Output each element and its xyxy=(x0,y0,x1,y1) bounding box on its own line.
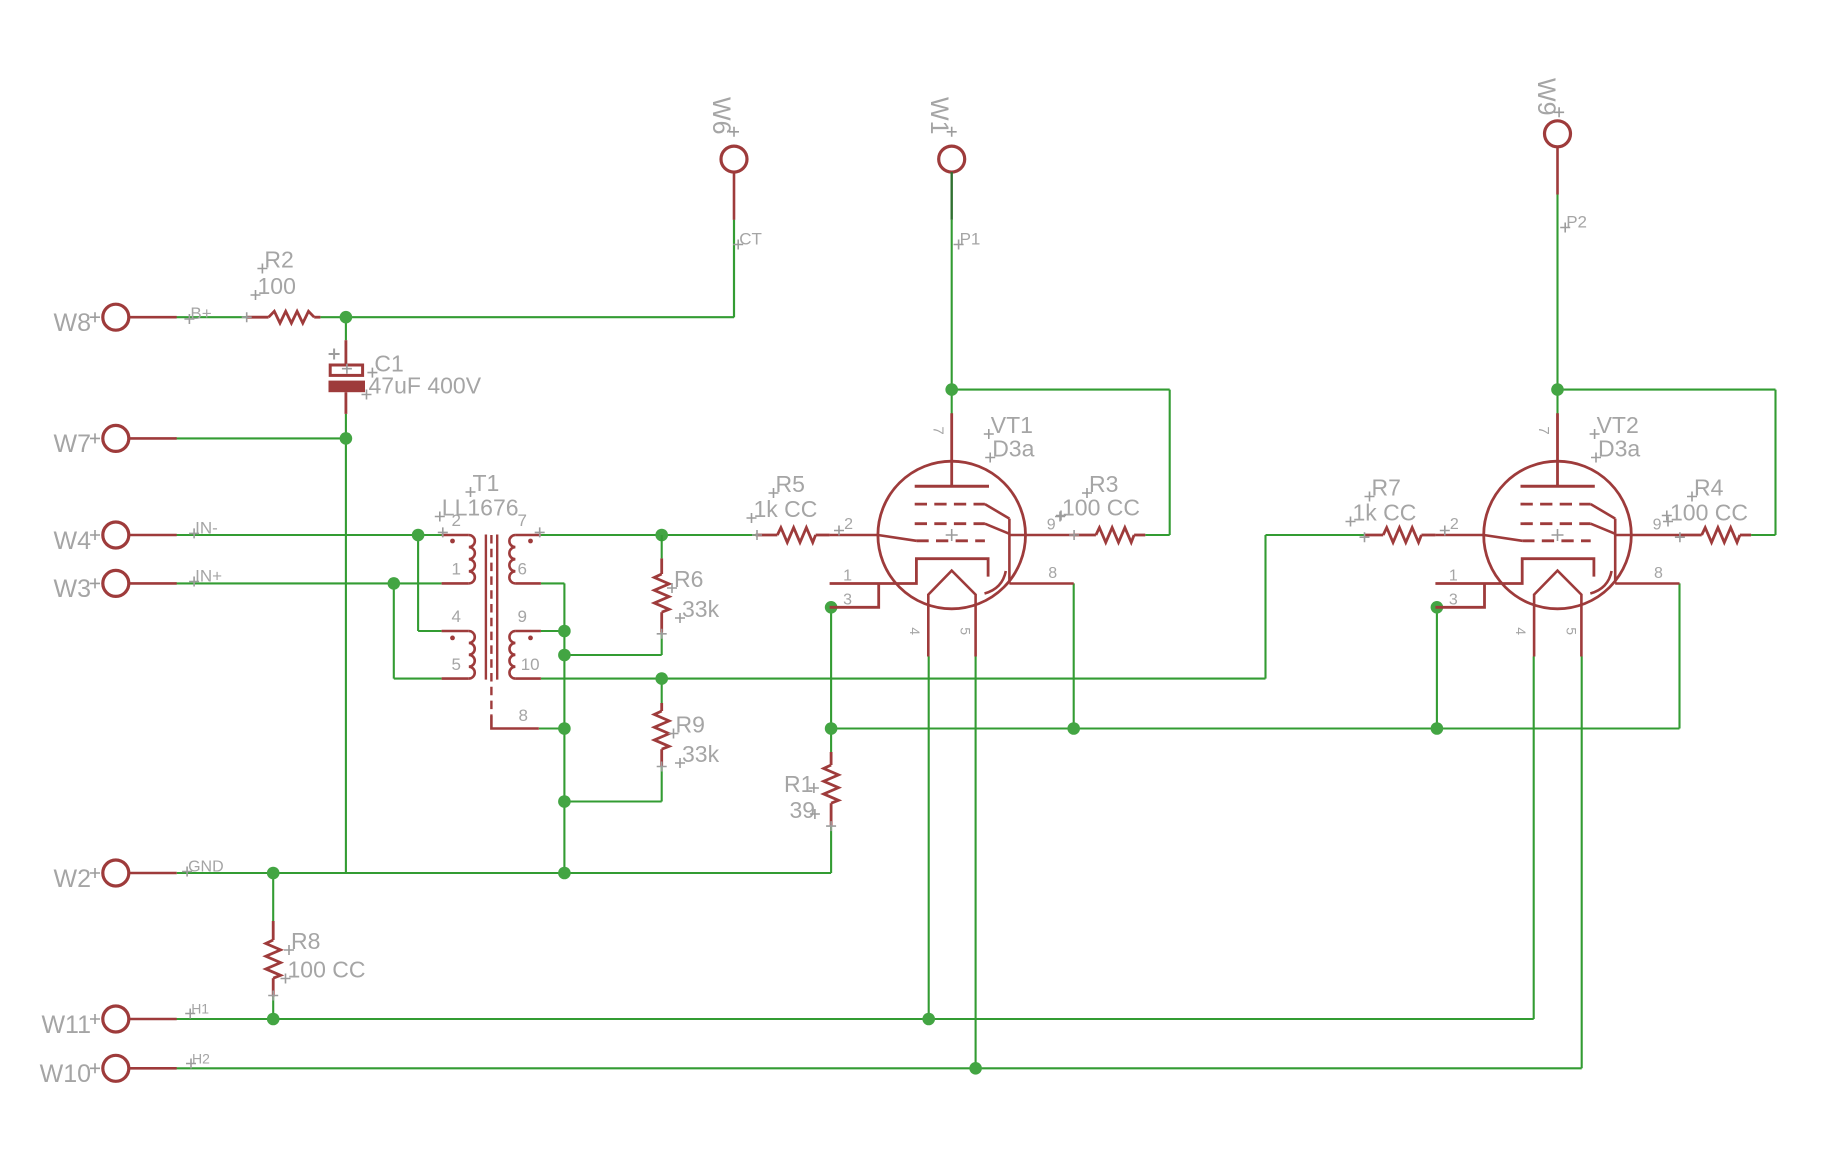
svg-text:33k: 33k xyxy=(682,596,720,622)
svg-text:W7: W7 xyxy=(54,430,92,458)
svg-text:5: 5 xyxy=(1564,627,1580,635)
svg-text:R2: R2 xyxy=(264,247,293,273)
svg-text:4: 4 xyxy=(1513,627,1529,635)
svg-text:2: 2 xyxy=(1450,516,1459,533)
svg-text:9: 9 xyxy=(518,607,527,626)
svg-text:9: 9 xyxy=(1653,517,1662,534)
svg-text:8: 8 xyxy=(1048,565,1057,582)
svg-text:1k CC: 1k CC xyxy=(1353,500,1417,526)
svg-text:3: 3 xyxy=(843,592,852,609)
svg-text:39: 39 xyxy=(790,797,816,823)
svg-text:7: 7 xyxy=(929,426,946,434)
svg-text:R6: R6 xyxy=(674,566,703,592)
svg-text:8: 8 xyxy=(1654,565,1663,582)
svg-text:R5: R5 xyxy=(776,471,805,497)
svg-text:CT: CT xyxy=(739,230,762,249)
svg-text:R7: R7 xyxy=(1372,475,1401,501)
svg-text:VT1: VT1 xyxy=(991,412,1033,438)
svg-text:B+: B+ xyxy=(190,304,211,323)
svg-text:GND: GND xyxy=(188,859,224,876)
svg-text:R3: R3 xyxy=(1089,471,1118,497)
svg-text:1: 1 xyxy=(452,559,461,578)
svg-text:1k CC: 1k CC xyxy=(754,496,818,522)
svg-text:D3a: D3a xyxy=(1598,436,1640,462)
svg-text:1: 1 xyxy=(1449,568,1458,585)
svg-text:3: 3 xyxy=(1449,592,1458,609)
svg-text:7: 7 xyxy=(1535,426,1552,434)
svg-text:9: 9 xyxy=(1047,517,1056,534)
svg-text:100 CC: 100 CC xyxy=(1062,495,1140,521)
svg-text:W10: W10 xyxy=(40,1060,91,1088)
svg-text:D3a: D3a xyxy=(992,436,1034,462)
svg-text:6: 6 xyxy=(518,559,527,578)
svg-text:W8: W8 xyxy=(54,309,92,337)
svg-text:7: 7 xyxy=(518,511,527,530)
svg-text:P1: P1 xyxy=(960,230,981,249)
svg-text:W2: W2 xyxy=(54,865,92,893)
svg-text:5: 5 xyxy=(958,627,974,635)
svg-text:2: 2 xyxy=(844,516,853,533)
svg-text:100: 100 xyxy=(258,273,296,299)
svg-text:8: 8 xyxy=(519,706,528,725)
svg-text:100 CC: 100 CC xyxy=(288,957,366,983)
svg-text:5: 5 xyxy=(452,655,461,674)
svg-text:R4: R4 xyxy=(1694,475,1724,501)
svg-text:P2: P2 xyxy=(1566,213,1587,232)
svg-text:W11: W11 xyxy=(41,1011,91,1039)
svg-text:R8: R8 xyxy=(291,928,320,954)
svg-text:2: 2 xyxy=(452,511,461,530)
svg-text:33k: 33k xyxy=(682,741,720,767)
svg-text:W9: W9 xyxy=(1532,78,1560,116)
svg-text:W4: W4 xyxy=(54,527,92,555)
svg-text:W6: W6 xyxy=(707,97,735,135)
svg-text:4: 4 xyxy=(907,627,923,635)
svg-text:1: 1 xyxy=(843,568,852,585)
svg-text:W1: W1 xyxy=(925,97,953,135)
svg-text:IN-: IN- xyxy=(195,518,218,537)
svg-text:T1: T1 xyxy=(473,470,500,496)
svg-text:VT2: VT2 xyxy=(1597,412,1639,438)
svg-text:47uF 400V: 47uF 400V xyxy=(369,373,482,399)
svg-text:4: 4 xyxy=(452,607,461,626)
svg-text:W3: W3 xyxy=(54,575,92,603)
svg-text:10: 10 xyxy=(521,655,540,674)
svg-text:R1: R1 xyxy=(784,771,813,797)
svg-text:R9: R9 xyxy=(676,712,705,738)
svg-text:100 CC: 100 CC xyxy=(1670,500,1748,526)
svg-text:IN+: IN+ xyxy=(195,567,222,586)
